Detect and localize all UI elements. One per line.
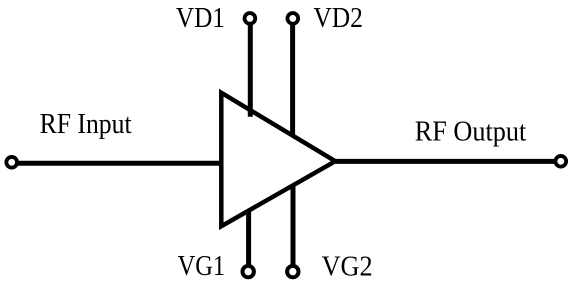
- terminal VG1 (open circle): [243, 266, 254, 277]
- amplifier U1 (triangle symbol): [221, 93, 335, 227]
- terminal VD1 (open circle): [245, 13, 256, 24]
- svg-text:VG1: VG1: [178, 250, 226, 282]
- wire VD2 drain bias (vertical): [290, 18, 295, 135]
- terminal RF output (open circle): [555, 156, 566, 167]
- terminal VD2 (open circle): [287, 13, 298, 24]
- wire VG1 gate bias (vertical): [246, 211, 251, 272]
- wire RF output (horizontal): [335, 159, 561, 164]
- svg-text:RF Input: RF Input: [40, 108, 132, 140]
- wire VG2 gate bias (vertical): [291, 186, 296, 272]
- svg-text:RF Output: RF Output: [415, 115, 527, 147]
- svg-text:VD1: VD1: [176, 2, 225, 34]
- terminal RF input (open circle): [6, 157, 17, 168]
- svg-text:VD2: VD2: [313, 2, 363, 34]
- terminal VG2 (open circle): [287, 266, 298, 277]
- svg-text:VG2: VG2: [322, 251, 373, 283]
- wire RF input (horizontal): [12, 161, 224, 166]
- wire VD1 drain bias (vertical): [248, 18, 253, 116]
